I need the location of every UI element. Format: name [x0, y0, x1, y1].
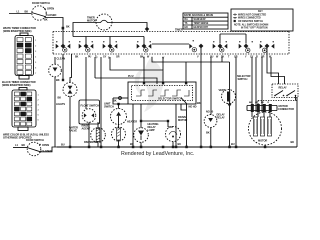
svg-text:BK: BK	[56, 78, 60, 82]
svg-text:VENT: VENT	[219, 88, 226, 92]
node terminal labels row	[96, 57, 165, 60]
svg-text:BK: BK	[44, 18, 48, 22]
svg-text:CLOSED: CLOSED	[42, 149, 53, 153]
bottom neutral bus	[57, 146, 297, 148]
svg-text:WIRES CONNECTED: WIRES CONNECTED	[238, 18, 261, 20]
main motor	[249, 112, 282, 147]
junction at selector top	[162, 82, 164, 84]
wire x152 step to y62	[152, 57, 230, 62]
svg-text:HD: HD	[185, 27, 189, 29]
svg-text:SELECTOR SWITCH: SELECTOR SWITCH	[158, 97, 182, 101]
svg-text:BU: BU	[231, 142, 235, 146]
wire L1 feed (top)	[9, 13, 32, 15]
svg-text:WIRES NOT CONNECTED: WIRES NOT CONNECTED	[238, 15, 267, 17]
svg-text:KEY: KEY	[258, 11, 263, 13]
svg-text:NOTE: ALL SWITCHES SHOWN: NOTE: ALL SWITCHES SHOWN	[234, 23, 269, 26]
timer dashed box	[53, 32, 289, 55]
motor connector	[247, 102, 294, 112]
svg-text:BK: BK	[58, 96, 62, 100]
svg-text:HEATER: HEATER	[127, 120, 137, 124]
svg-text:OPEN: OPEN	[42, 143, 49, 147]
svg-text:MOTOR: MOTOR	[258, 139, 267, 143]
svg-text:PU 2: PU 2	[128, 74, 134, 78]
junction	[62, 27, 65, 30]
wire drop x71 to lights	[70, 54, 72, 83]
wire PU2 horizontal	[95, 78, 157, 84]
svg-text:BU: BU	[61, 143, 65, 147]
svg-text:DOOR SWITCH: DOOR SWITCH	[32, 1, 50, 5]
dashed wire below relay	[258, 100, 297, 102]
svg-text:SWITCH: SWITCH	[238, 77, 248, 81]
svg-text:BU: BU	[210, 56, 214, 59]
svg-text:DOOR SWITCH: DOOR SWITCH	[26, 138, 44, 142]
wire timer motor left branch	[73, 23, 97, 37]
svg-text:OR: OR	[116, 56, 120, 59]
option table	[183, 13, 228, 29]
svg-text:BK: BK	[113, 99, 117, 103]
bus junctions	[69, 146, 266, 149]
svg-text:RELAY: RELAY	[279, 86, 288, 90]
cam switch 5	[189, 40, 203, 147]
relay	[272, 84, 298, 101]
svg-text:AGENT: AGENT	[82, 127, 91, 131]
wire x252 drop to motor connector	[251, 57, 253, 112]
watermark	[135, 58, 164, 112]
timer motor TM	[87, 14, 112, 30]
wire drop x86 to float switch	[85, 57, 87, 100]
svg-text:MOTOR: MOTOR	[178, 118, 187, 122]
svg-text:DISPENSER: DISPENSER	[84, 140, 98, 144]
black timer connector	[12, 88, 40, 131]
svg-text:BK: BK	[75, 56, 79, 59]
svg-text:BR: BR	[261, 56, 265, 59]
wire x267 step to relay	[267, 57, 279, 84]
cam switch 7	[239, 41, 253, 52]
svg-text:SWITCH: SWITCH	[104, 104, 114, 108]
junction diamond	[145, 27, 150, 32]
svg-text:BK: BK	[206, 131, 210, 135]
wire x222 drop	[221, 57, 223, 62]
door switch (top)	[32, 1, 57, 22]
svg-text:TS: TS	[185, 23, 188, 25]
wire selector to bus left	[113, 97, 128, 99]
wire step x110 to selector	[110, 57, 163, 84]
selector switch box	[128, 82, 196, 104]
svg-text:FLOAT SWITCH: FLOAT SWITCH	[81, 104, 100, 108]
svg-text:NO 30: NO 30	[206, 110, 214, 114]
bus feeds	[85, 37, 87, 45]
cam switch 2	[79, 41, 94, 52]
svg-text:BK: BK	[66, 25, 70, 29]
svg-text:BK: BK	[22, 143, 26, 147]
svg-text:PK: PK	[221, 56, 225, 59]
svg-text:LIGHTS: LIGHTS	[56, 102, 65, 106]
indicator CLEAN lamp	[49, 57, 66, 148]
cam switch 3	[103, 41, 118, 52]
svg-text:HEATED DRY: HEATED DRY	[194, 26, 209, 29]
door switch (bottom)	[13, 138, 57, 156]
wire x262 drop	[261, 57, 263, 112]
heating delay lamp	[134, 120, 170, 147]
dispenser solenoid	[69, 122, 105, 147]
svg-text:BU: BU	[178, 142, 182, 146]
wire x144 to selector	[143, 57, 145, 84]
svg-text:NO HD: NO HD	[189, 105, 197, 109]
wire colour labels under timer box	[75, 56, 272, 59]
indicator LIGHTS lamp	[56, 80, 77, 147]
svg-text:CONNECTOR: CONNECTOR	[278, 107, 294, 111]
jumper from selector to node	[181, 98, 201, 148]
svg-text:BK: BK	[197, 101, 201, 105]
svg-text:OPEN: OPEN	[47, 7, 54, 11]
svg-text:RELAY: RELAY	[217, 116, 226, 120]
svg-text:RAPID ADVANCE & DRAIN: RAPID ADVANCE & DRAIN	[184, 14, 213, 17]
svg-text:SANI HEAT: SANI HEAT	[194, 18, 207, 21]
svg-text:CLEAN: CLEAN	[57, 57, 66, 61]
svg-text:(WIRE INSERTION SIDE): (WIRE INSERTION SIDE)	[2, 83, 31, 87]
cam switch 8	[260, 41, 275, 57]
wire x186 drop to selector	[185, 62, 187, 84]
svg-text:GY: GY	[103, 56, 107, 59]
svg-text:TEMP SENSE: TEMP SENSE	[194, 23, 209, 25]
heater solenoid	[112, 120, 138, 148]
svg-text:MOTOR: MOTOR	[87, 19, 96, 23]
key box	[231, 9, 293, 31]
wire door switch to bus	[45, 18, 63, 45]
svg-text:(WIRE INSERTION SIDE): (WIRE INSERTION SIDE)	[3, 29, 32, 33]
white timer connector	[15, 33, 37, 79]
svg-text:CLOSED: CLOSED	[46, 13, 57, 17]
wire x236 drop	[235, 57, 237, 147]
junction	[143, 82, 145, 84]
wire relay right down	[296, 97, 298, 147]
svg-text:BK: BK	[25, 10, 29, 14]
bus L1	[73, 36, 144, 38]
wire x63 down from timer box	[62, 54, 64, 80]
svg-text:RA: RA	[185, 18, 189, 21]
limit switch	[104, 99, 128, 125]
wire x211 to delay relay	[210, 57, 212, 115]
wire cam4 to cam5	[152, 43, 189, 45]
drain motor	[165, 115, 187, 147]
wire drop x101 long	[100, 57, 102, 147]
cam switch 1	[56, 41, 71, 52]
wire timer motor right branch	[111, 23, 147, 32]
svg-text:PU: PU	[88, 56, 92, 59]
svg-text:IN THE "OFF" POSITION: IN THE "OFF" POSITION	[241, 28, 268, 30]
cam switch 4	[137, 41, 152, 52]
float switch assembly	[79, 100, 100, 147]
selector bottom drops	[132, 104, 134, 147]
wire x271 step to relay	[271, 57, 285, 84]
cam switch 6	[213, 41, 228, 52]
wire left of PU2 down	[94, 57, 96, 78]
svg-text:OR DENOTES SWITCH: OR DENOTES SWITCH	[238, 21, 263, 23]
svg-text:Rendered by LeadVenture, Inc.: Rendered by LeadVenture, Inc.	[121, 151, 194, 157]
svg-text:TIMER: TIMER	[175, 27, 183, 31]
bus right segment	[220, 33, 246, 35]
svg-text:BU: BU	[130, 142, 134, 146]
wire x256 drop	[255, 57, 257, 112]
svg-text:LAMP: LAMP	[148, 128, 155, 132]
svg-text:VALVE: VALVE	[69, 129, 77, 133]
wire motor to bus	[264, 145, 266, 147]
delay relay	[204, 110, 225, 147]
svg-text:BK: BK	[291, 140, 295, 144]
vent fan	[219, 62, 236, 147]
